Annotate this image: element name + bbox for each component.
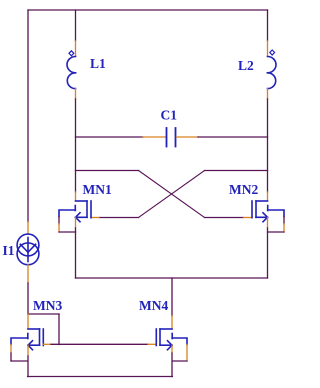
wire top rail VDD (28, 9, 268, 11)
wire diagonal MN2 drain to MN1 gate (139, 171, 205, 218)
wire I1 top pin stub (27, 222, 29, 234)
svg-text:MN3: MN3 (33, 298, 62, 313)
wire MN4 gate pin stub (148, 343, 156, 345)
svg-text:C1: C1 (161, 108, 178, 123)
wire L1 to MN1 drain node (75, 99, 77, 192)
wire MN3 bulk loop (10, 345, 12, 354)
wire MN3 source pin stub (27, 345, 29, 356)
wire C1 right pin stub (177, 136, 199, 138)
wire MN1 bulk loop (58, 217, 60, 225)
wire MN4 bulk loop (186, 345, 188, 362)
wire C1 left pin stub (143, 136, 166, 138)
wire L1 bottom stub (75, 89, 77, 99)
wire I1 to MN3 drain (27, 283, 29, 314)
transistor MN3 (nmos diode-connected, mirrored, pins left) (11, 329, 43, 350)
wire C1 left net (76, 136, 144, 138)
wire L1 top stub (75, 10, 77, 41)
wire MN3 source down (27, 356, 29, 377)
inductor L2 (268, 50, 277, 89)
svg-text:MN4: MN4 (139, 298, 168, 313)
current source I1 (17, 234, 39, 265)
wire MN1 drain pin stub (75, 192, 77, 201)
svg-text:I1: I1 (3, 243, 15, 258)
wire MN1 gate pin stub (91, 217, 99, 219)
wire cross-couple right top branch (205, 170, 268, 172)
wire to MN2 gate (205, 217, 244, 219)
transistor MN1 (nmos, mirrored, pins left) (59, 201, 91, 222)
wire diode tie vertical (58, 314, 60, 345)
wire cross-couple left top branch (76, 170, 139, 172)
svg-text:MN2: MN2 (229, 182, 258, 197)
wire MN4 source down (171, 353, 173, 377)
wire L2 top stub (267, 10, 269, 41)
wire MN3 drain pin stub (27, 314, 29, 329)
wire diode tie MN3 drain-gate (horizontal) (28, 313, 59, 315)
wire gate mirror net (51, 343, 148, 345)
wire MN2 drain pin stub (267, 192, 269, 201)
wire MN2 bulk loop (283, 217, 285, 225)
wire I1 bottom pin stub (27, 265, 29, 283)
wire left rail (top to I1) (27, 10, 29, 222)
wire MN4 source pin stub (171, 345, 173, 353)
wire bottom rail (MN3/MN4 sources) (28, 376, 173, 378)
transistor MN2 (nmos, pins right) (252, 201, 284, 222)
wire tail down to MN4 drain (171, 278, 173, 316)
wire MN2 source pin stub (267, 217, 269, 228)
wire MN2 gate pin stub (244, 217, 253, 219)
svg-text:L1: L1 (90, 56, 106, 71)
wire L2 to MN2 drain node (267, 99, 269, 192)
wire MN2 source down (267, 228, 269, 278)
wire gate mirror MN3 gate pin stub (43, 343, 51, 345)
wire C1 right net (198, 136, 268, 138)
wire MN1 source down (75, 228, 77, 278)
svg-text:MN1: MN1 (83, 182, 112, 197)
wire diagonal MN1 drain to MN2 gate (139, 171, 205, 218)
capacitor C1 (167, 128, 176, 147)
inductor L1 (67, 51, 76, 89)
wire MN4 drain pin stub (171, 316, 173, 329)
wire L2 bottom stub (267, 89, 269, 99)
svg-text:L2: L2 (238, 58, 254, 73)
wire tail rail (MN1/MN2 sources) (76, 277, 268, 279)
wire MN1 source pin stub (75, 217, 77, 228)
wire to MN1 gate (99, 217, 139, 219)
transistor MN4 (nmos, pins right) (156, 329, 187, 350)
